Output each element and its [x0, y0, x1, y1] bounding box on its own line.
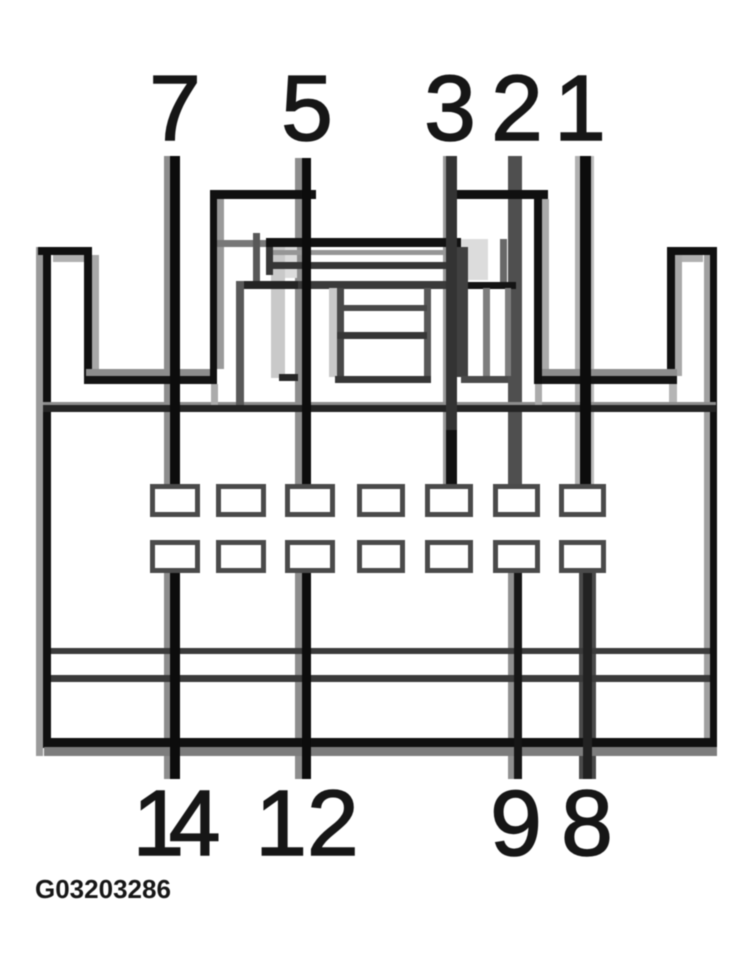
svg-text:1: 1 — [554, 56, 606, 160]
svg-text:9: 9 — [490, 771, 542, 875]
svg-text:4: 4 — [169, 771, 221, 875]
svg-text:7: 7 — [149, 56, 201, 160]
svg-text:3: 3 — [424, 56, 476, 160]
svg-text:G03203286: G03203286 — [35, 874, 171, 904]
svg-text:2: 2 — [491, 56, 543, 160]
svg-text:5: 5 — [281, 56, 333, 160]
svg-text:12: 12 — [255, 771, 358, 875]
svg-text:8: 8 — [561, 771, 613, 875]
